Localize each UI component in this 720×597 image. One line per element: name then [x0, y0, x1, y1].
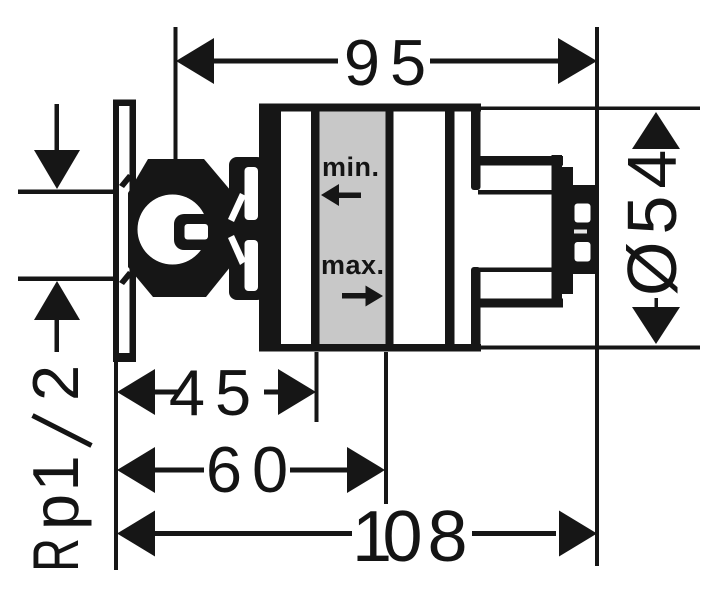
collar rib top [471, 108, 481, 190]
svg-text:95: 95 [344, 26, 436, 99]
Rp12 arrow up [34, 281, 80, 352]
tile zone gray band [320, 112, 386, 345]
dia 54 arrow down [632, 307, 680, 344]
valve bore circle [138, 195, 208, 265]
svg-text:min.: min. [322, 152, 380, 182]
Rp12 socket line top [18, 190, 114, 195]
svg-text:R: R [21, 538, 93, 572]
housing right border [445, 104, 455, 352]
spindle end C shape [174, 214, 213, 250]
dia 54 stem [655, 298, 659, 307]
dim 45 arrow left [117, 369, 155, 415]
collar rib bottom [471, 267, 481, 349]
housing bottom border [259, 344, 481, 352]
tile zone left line [311, 112, 320, 345]
dim 95 line [210, 59, 558, 64]
spindle step bar [562, 167, 573, 294]
dim 60 arrow right [347, 447, 385, 493]
Rp12 socket line bottom [18, 277, 114, 282]
dim 45 arrow right [278, 369, 316, 415]
housing left border [259, 104, 281, 352]
dim 95 extension line left [174, 27, 178, 159]
svg-text:Ø54: Ø54 [613, 143, 691, 296]
wall plate [113, 100, 136, 363]
dim 108 arrow right [559, 511, 597, 557]
dia 54 bottom extension line [481, 346, 700, 350]
dim 108 line [152, 531, 556, 536]
retaining clip [228, 157, 265, 300]
dim 45 extension line right [315, 352, 319, 422]
left extension line bottom [114, 360, 118, 570]
dim 45 line [152, 390, 279, 395]
dim 108 arrow left [117, 511, 155, 557]
plate tick lower [119, 271, 133, 285]
neck top line [478, 190, 558, 195]
svg-text:max.: max. [321, 250, 385, 280]
dia 54 arrow up [632, 112, 680, 149]
min arrow [321, 184, 361, 206]
svg-text:108: 108 [352, 497, 468, 577]
valve body octagon [128, 159, 231, 297]
Rp12 arrow down [34, 104, 80, 189]
max arrow [342, 286, 383, 307]
svg-text:60: 60 [206, 433, 298, 506]
svg-text:p12: p12 [19, 365, 92, 530]
dim 60 extension line right [384, 352, 388, 504]
dim 95 arrow left [176, 38, 214, 84]
collar end flange [552, 155, 563, 305]
dim 60 line [152, 468, 348, 473]
housing top border [259, 104, 481, 112]
dim 60 arrow left [117, 447, 155, 493]
plate tick upper [119, 174, 133, 188]
tile zone right line [386, 112, 394, 345]
svg-text:45: 45 [169, 356, 261, 429]
dia 54 top extension line [481, 107, 700, 111]
collar top edge [478, 156, 563, 166]
spindle block [573, 185, 597, 274]
Rp12 text [19, 365, 93, 572]
dim 95/108 extension line right [595, 27, 599, 566]
dim 95 arrow right [558, 38, 597, 84]
collar bottom edge [478, 299, 563, 308]
neck bottom line [478, 268, 558, 273]
